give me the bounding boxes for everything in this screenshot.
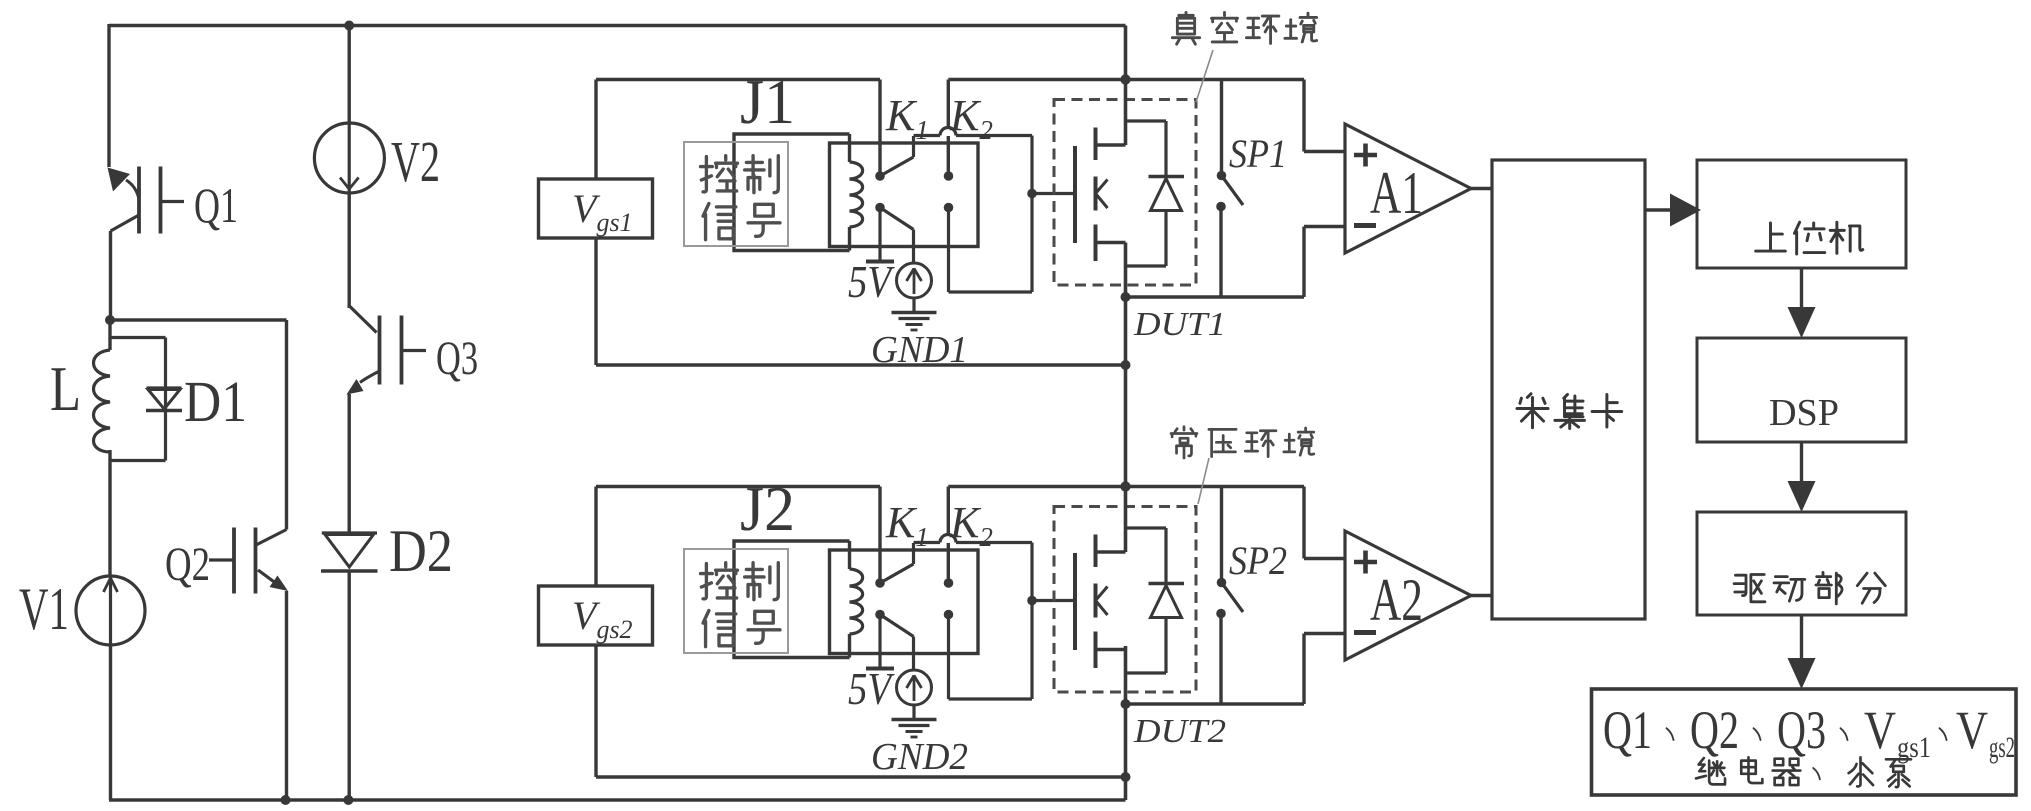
svg-text:J1: J1	[740, 66, 795, 137]
svg-text:V1: V1	[19, 576, 69, 642]
svg-text:Q1: Q1	[1603, 700, 1652, 760]
svg-text:D2: D2	[389, 518, 453, 584]
svg-text:5V: 5V	[848, 256, 895, 307]
svg-text:DUT1: DUT1	[1133, 306, 1226, 343]
svg-text:J2: J2	[740, 473, 795, 544]
svg-text:GND1: GND1	[871, 329, 968, 371]
svg-text:Q3: Q3	[436, 332, 478, 385]
svg-text:V: V	[1864, 700, 1896, 760]
svg-text:GND2: GND2	[871, 736, 968, 778]
svg-text:Q3: Q3	[1777, 700, 1826, 760]
svg-text:Q2: Q2	[165, 538, 210, 591]
svg-text:V2: V2	[391, 129, 440, 194]
svg-text:Q1: Q1	[194, 177, 238, 233]
svg-text:A1: A1	[1370, 160, 1423, 226]
svg-text:DSP: DSP	[1769, 392, 1839, 434]
svg-text:5V: 5V	[848, 663, 895, 714]
svg-text:Q2: Q2	[1690, 700, 1739, 760]
svg-text:SP2: SP2	[1229, 538, 1287, 583]
svg-text:V: V	[1956, 700, 1988, 760]
svg-text:DUT2: DUT2	[1133, 713, 1226, 750]
svg-text:gs2: gs2	[1989, 731, 2015, 764]
svg-text:L: L	[50, 353, 81, 424]
svg-text:SP1: SP1	[1229, 131, 1287, 176]
svg-text:A2: A2	[1370, 567, 1423, 633]
svg-text:D1: D1	[184, 369, 247, 434]
